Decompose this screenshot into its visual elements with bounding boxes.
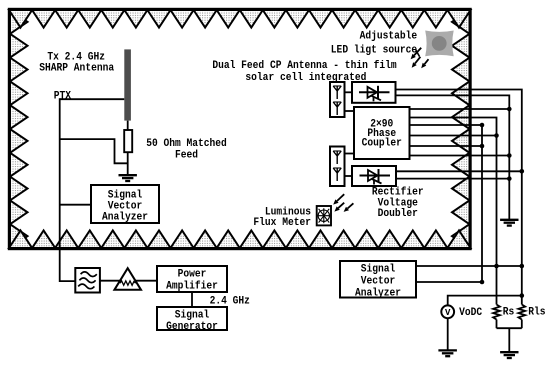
- attenuator triangle: [114, 268, 141, 290]
- svg-text:Feed: Feed: [175, 149, 198, 161]
- diode D2 symbol: [360, 169, 391, 185]
- svg-text:Generator: Generator: [166, 321, 218, 333]
- wire diode D2 output b: [396, 178, 509, 180]
- antenna glyphs box1: [333, 86, 341, 115]
- svg-text:LED ligt source: LED ligt source: [331, 45, 418, 57]
- wire bus tap to matched feed bottom: [60, 139, 128, 163]
- wire coupler port 4: [410, 135, 497, 137]
- svg-text:Power: Power: [178, 269, 207, 281]
- ground (right bus 3): [500, 220, 518, 226]
- 2x90 phase coupler box: [354, 107, 410, 159]
- wire matched feed to ground: [127, 152, 129, 175]
- absorber cones left wall: [10, 10, 28, 248]
- tick after source label: [416, 50, 420, 57]
- wire antenna feed 2 to phase coupler: [345, 153, 355, 155]
- label Rectifier Voltage Doubler: [372, 187, 424, 220]
- svg-text:Signal: Signal: [361, 264, 396, 276]
- wire antenna feed 1 to rectifier diode D1: [345, 91, 353, 93]
- wire PTX feed line to Tx antenna: [60, 98, 125, 100]
- ground (VoDC): [438, 350, 457, 356]
- VoDC voltmeter: [441, 305, 454, 318]
- svg-text:PTX: PTX: [54, 91, 72, 103]
- attenuator zigzag: [120, 281, 136, 285]
- dual feed antenna port box 1: [330, 82, 345, 117]
- 50 ohm matched feed element: [124, 130, 132, 152]
- resistor Rls: [518, 305, 525, 320]
- wire coupler port 5: [410, 145, 483, 147]
- wire antenna feed 2 to rectifier diode D2: [345, 175, 353, 177]
- wire bottom node to ground: [508, 328, 510, 352]
- svg-text:solar cell integrated: solar cell integrated: [245, 72, 366, 84]
- svg-text:Adjustable: Adjustable: [360, 31, 418, 43]
- svg-text:Dual Feed CP Antenna - thin fi: Dual Feed CP Antenna - thin film: [212, 60, 397, 72]
- ground (matched feed): [119, 175, 137, 181]
- absorber cones top wall: [9, 10, 471, 28]
- wire coupler port 2 to right bus 2 (down to Rs): [410, 118, 497, 305]
- svg-text:SHARP Antenna: SHARP Antenna: [39, 63, 114, 75]
- wire power amplifier to signal generator (2.4 GHz): [191, 292, 193, 307]
- wire VoDC meter to Rls node: [448, 296, 522, 306]
- wire signal vector analyzer 2 output 2: [416, 281, 482, 283]
- wire Rs bottom stub: [496, 320, 498, 329]
- svg-text:Rs: Rs: [503, 306, 515, 318]
- svg-text:Vector: Vector: [361, 276, 396, 288]
- wire diode D2 output a: [396, 170, 522, 172]
- wire coupler port 6: [410, 155, 510, 157]
- rectifier diode D1 box: [352, 82, 396, 103]
- wire antenna bar to matched feed: [127, 121, 129, 131]
- label Tx 2.4 GHz SHARP Antenna: [39, 52, 114, 75]
- absorber cones right wall: [452, 10, 470, 248]
- label Adjustable LED ligt source: [331, 31, 418, 57]
- label Dual Feed CP Antenna thin film solar cell integrated: [212, 60, 397, 84]
- flux meter sphere symbol: [318, 208, 331, 223]
- wire VoDC meter to ground: [447, 318, 449, 350]
- junction dots: [480, 107, 524, 298]
- svg-text:Analyzer: Analyzer: [355, 288, 401, 300]
- svg-text:Signal: Signal: [175, 310, 210, 322]
- LED light rays arrows: [411, 48, 429, 68]
- label 50 Ohm Matched Feed: [146, 138, 227, 161]
- wire coupler port 1: [410, 108, 510, 110]
- dual feed antenna port box 2: [330, 147, 345, 187]
- rectifier diode D2 box: [352, 166, 396, 186]
- wire Rs-Rls bottom junction: [497, 327, 522, 329]
- svg-text:Doubler: Doubler: [378, 208, 418, 220]
- bandpass filter waves: [78, 272, 97, 289]
- label Luminous Flux Meter: [253, 206, 311, 229]
- wire left bus vertical (PTX node down to filter): [60, 98, 76, 281]
- wire bus to signal vector analyzer 1: [60, 204, 91, 206]
- power amplifier box: [157, 266, 227, 292]
- svg-text:VoDC: VoDC: [459, 307, 482, 319]
- wire coupler port 3 to right bus 1: [410, 125, 483, 282]
- wire filter to power amplifier through attenuator: [100, 280, 157, 282]
- svg-text:Flux Meter: Flux Meter: [253, 217, 311, 229]
- diode D1 symbol: [359, 86, 390, 102]
- wire signal vector analyzer 2 output 1: [416, 265, 522, 267]
- signal generator box: [157, 307, 227, 330]
- wire Rls bottom stub: [521, 320, 523, 329]
- Tx SHARP antenna bar: [124, 49, 131, 120]
- wire diode D1 output a to right bus 4 (down to Rls): [395, 90, 522, 305]
- svg-text:2.4 GHz: 2.4 GHz: [210, 295, 250, 307]
- antenna glyphs box2: [333, 151, 341, 181]
- bandpass filter box: [75, 268, 100, 293]
- wire antenna feed 1 to phase coupler: [345, 110, 355, 112]
- signal vector analyzer 1 box: [91, 185, 159, 223]
- signal vector analyzer 2 box: [340, 261, 416, 298]
- svg-text:V: V: [445, 308, 451, 318]
- svg-text:Coupler: Coupler: [362, 137, 402, 149]
- svg-text:Rls: Rls: [528, 306, 545, 318]
- wire diode D1 output b to right bus 3 (down to ground): [395, 95, 509, 219]
- adjustable LED light source lamp: [425, 31, 454, 57]
- svg-text:Amplifier: Amplifier: [166, 281, 218, 293]
- svg-text:50 Ohm Matched: 50 Ohm Matched: [146, 138, 227, 150]
- ground (Rs Rls): [500, 352, 518, 358]
- light rays into flux meter arrows: [333, 194, 353, 212]
- resistor Rs: [493, 305, 500, 320]
- absorber cones bottom wall: [9, 231, 471, 249]
- luminous flux meter box: [317, 206, 331, 225]
- anechoic chamber wall (outer border): [9, 9, 471, 249]
- svg-text:Analyzer: Analyzer: [102, 211, 148, 223]
